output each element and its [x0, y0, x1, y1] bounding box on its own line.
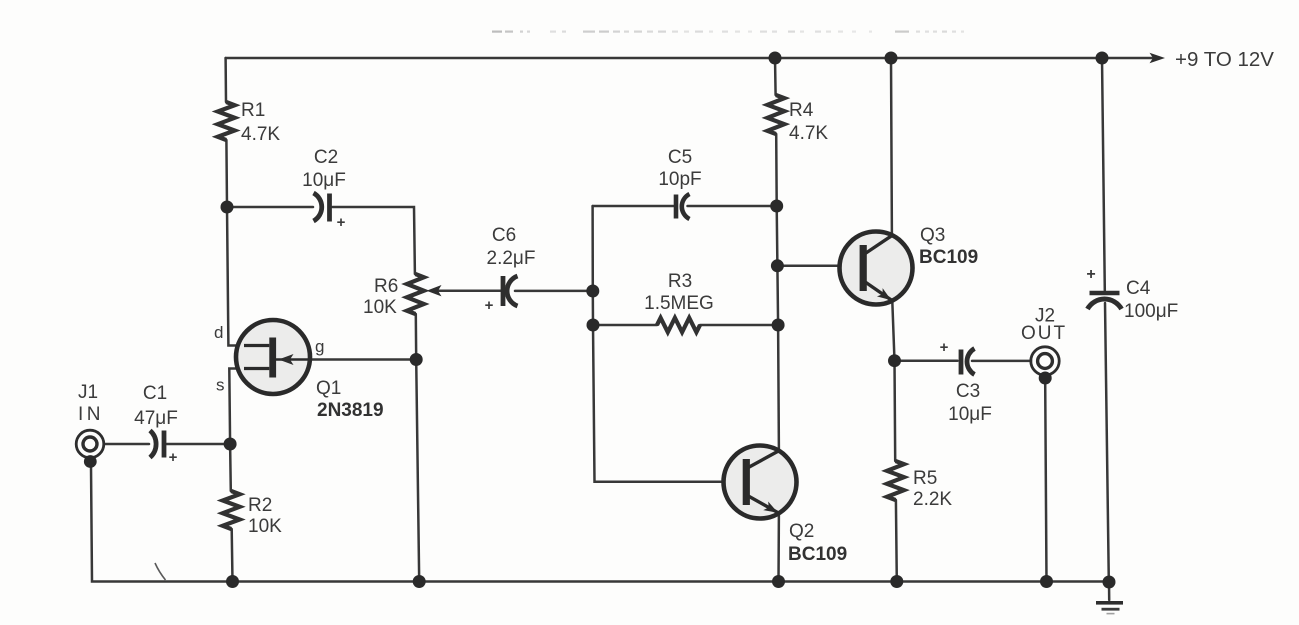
svg-text:C6: C6 [492, 225, 516, 246]
svg-text:OUT: OUT [1021, 323, 1067, 344]
svg-text:BC109: BC109 [788, 544, 847, 565]
svg-text:4.7K: 4.7K [241, 124, 280, 145]
svg-text:R6: R6 [374, 276, 398, 297]
svg-text:+: + [1086, 266, 1095, 283]
svg-text:+: + [169, 449, 178, 466]
svg-text:C1: C1 [143, 383, 167, 404]
svg-text:Q2: Q2 [789, 521, 814, 542]
svg-text:J1: J1 [78, 382, 98, 403]
svg-text:+9 TO 12V: +9 TO 12V [1175, 48, 1274, 71]
svg-text:1.5MEG: 1.5MEG [644, 293, 714, 314]
svg-text:R1: R1 [241, 100, 265, 121]
svg-text:+: + [337, 214, 346, 231]
svg-text:C3: C3 [956, 381, 980, 402]
svg-text:10pF: 10pF [658, 169, 701, 190]
svg-text:Q3: Q3 [920, 225, 945, 246]
svg-text:10K: 10K [363, 297, 397, 318]
svg-text:10μF: 10μF [302, 170, 346, 191]
svg-text:2.2μF: 2.2μF [487, 248, 536, 269]
svg-text:47μF: 47μF [134, 408, 178, 429]
svg-text:R2: R2 [248, 495, 272, 516]
svg-text:100μF: 100μF [1124, 301, 1178, 322]
svg-text:R5: R5 [913, 468, 937, 489]
svg-text:R3: R3 [668, 271, 692, 292]
svg-text:Q1: Q1 [316, 378, 341, 399]
svg-text:C5: C5 [668, 147, 692, 168]
svg-text:4.7K: 4.7K [789, 123, 828, 144]
svg-text:C2: C2 [314, 147, 338, 168]
svg-text:10K: 10K [248, 516, 282, 537]
svg-text:+: + [940, 339, 949, 356]
svg-text:2N3819: 2N3819 [317, 400, 384, 421]
svg-text:10μF: 10μF [948, 404, 992, 425]
svg-text:IN: IN [78, 404, 104, 425]
svg-text:C4: C4 [1126, 278, 1151, 299]
svg-text:s: s [216, 376, 225, 395]
svg-text:+: + [485, 297, 494, 314]
svg-text:R4: R4 [789, 100, 814, 121]
svg-text:g: g [315, 337, 324, 356]
svg-text:2.2K: 2.2K [913, 489, 952, 510]
svg-text:BC109: BC109 [919, 247, 978, 268]
svg-text:d: d [214, 323, 223, 342]
